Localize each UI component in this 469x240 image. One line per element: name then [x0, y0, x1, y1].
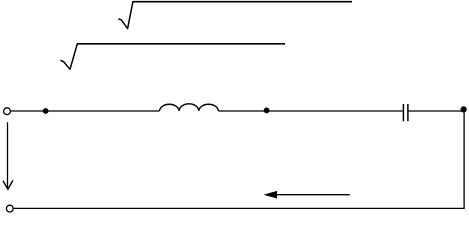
- terminal (open circle) top-left: [4, 108, 11, 115]
- arrow down (left side) shaft: [7, 122, 9, 188]
- wire: terminal to inductor: [11, 110, 160, 112]
- arrow down open head: [3, 181, 12, 189]
- arrow left (bottom) shaft: [276, 194, 350, 196]
- terminal (open circle) bottom-left: [6, 205, 13, 212]
- node dot C (top right): [461, 106, 467, 112]
- node dot A: [43, 108, 49, 114]
- capacitor C1 plate left: [402, 104, 404, 121]
- inductor L1: [160, 104, 219, 111]
- capacitor C1 plate right: [407, 104, 409, 121]
- sqrt vinculum 1: [133, 1, 352, 3]
- arrow left filled head: [264, 191, 278, 199]
- wire: inductor to capacitor: [218, 110, 402, 112]
- sqrt radical sign 2: [61, 44, 77, 70]
- sqrt radical sign 1 (top): [119, 2, 133, 29]
- node dot B: [264, 108, 270, 114]
- sqrt vinculum 2: [77, 43, 285, 45]
- wire: capacitor to right corner: [409, 110, 465, 112]
- wire: right vertical: [463, 110, 465, 209]
- wire: bottom return: [14, 207, 465, 209]
